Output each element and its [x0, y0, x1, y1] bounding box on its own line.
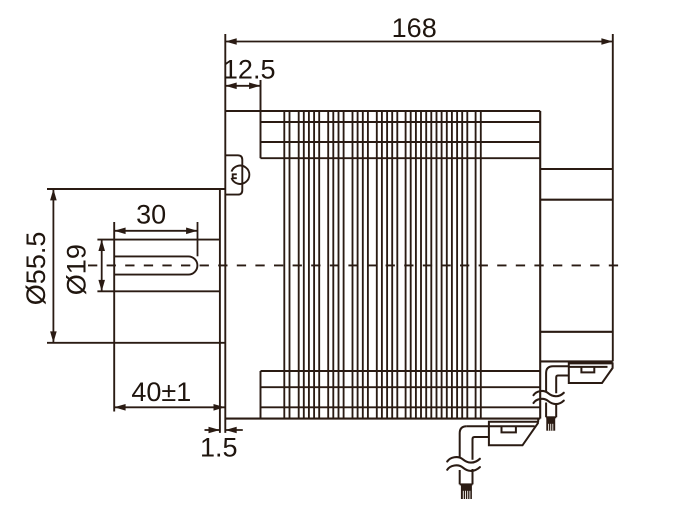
svg-text:168: 168: [392, 13, 437, 43]
svg-text:Ø19: Ø19: [62, 244, 92, 295]
svg-text:Ø55.5: Ø55.5: [21, 232, 51, 306]
svg-text:30: 30: [136, 200, 166, 230]
svg-text:12.5: 12.5: [223, 55, 276, 85]
svg-text:1.5: 1.5: [200, 432, 238, 462]
svg-text:40±1: 40±1: [131, 377, 191, 407]
